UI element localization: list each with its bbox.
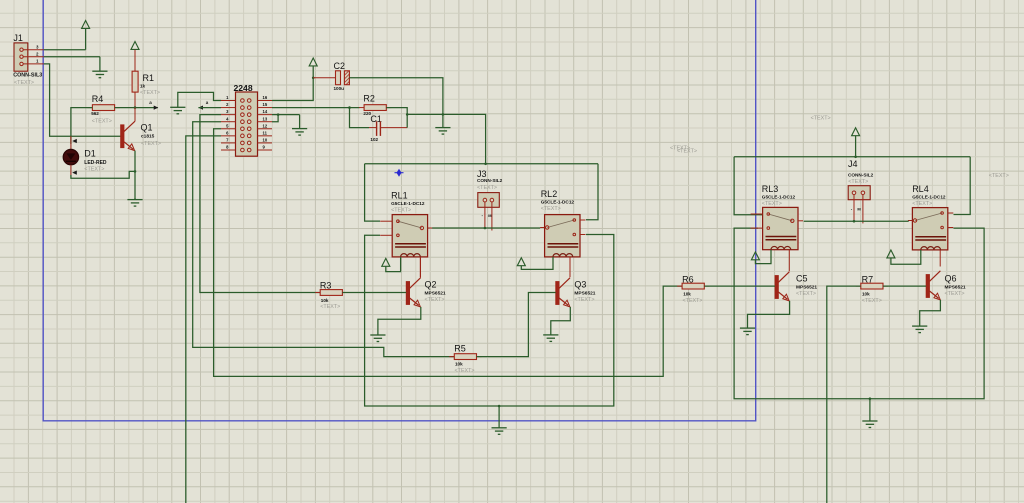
svg-text:<TEXT>: <TEXT> bbox=[912, 201, 932, 207]
wire RL1 common to RL2 common bbox=[432, 227, 540, 229]
power terminal P2 bbox=[131, 42, 139, 50]
ground G9 bbox=[740, 328, 755, 335]
svg-text:<TEXT>: <TEXT> bbox=[140, 90, 160, 96]
wire 2248 pin1 to ground bbox=[178, 92, 221, 107]
junction dot bbox=[484, 227, 487, 230]
svg-text:<TEXT>: <TEXT> bbox=[677, 149, 697, 155]
svg-text:<TEXT>: <TEXT> bbox=[848, 179, 868, 185]
svg-text:<TEXT>: <TEXT> bbox=[141, 141, 161, 147]
wire Q2 collector bbox=[420, 257, 422, 278]
wire RL3 coil left to power bbox=[755, 250, 771, 264]
power terminal P3 bbox=[309, 58, 317, 66]
transistor Q2 bbox=[406, 278, 446, 307]
svg-text:<TEXT>: <TEXT> bbox=[320, 304, 340, 310]
ground G3 bbox=[292, 128, 307, 135]
wire R5 to Q3 base bbox=[477, 293, 556, 357]
resistor R5 bbox=[449, 344, 481, 374]
svg-text:R4: R4 bbox=[92, 94, 104, 104]
svg-text:R5: R5 bbox=[454, 344, 466, 354]
svg-text:10k: 10k bbox=[321, 298, 329, 303]
svg-text:<TEXT>: <TEXT> bbox=[945, 291, 965, 297]
wire R7 feed from bottom bbox=[827, 286, 861, 503]
svg-text:<TEXT>: <TEXT> bbox=[796, 291, 816, 297]
wire frame right to RL2 upper bbox=[586, 164, 598, 220]
wire to relay frame top bbox=[407, 114, 485, 163]
resistor R6 bbox=[677, 275, 709, 304]
svg-text:<TEXT>: <TEXT> bbox=[683, 298, 703, 304]
wire C5 emitter to ground bbox=[748, 301, 790, 328]
relay RL3 bbox=[751, 184, 803, 250]
svg-text:16: 16 bbox=[263, 95, 268, 100]
wire frame left upper to RL1 bbox=[365, 164, 380, 221]
junction dot bbox=[854, 156, 857, 159]
wire R2-C1 left loop bbox=[350, 108, 377, 128]
ground G1 bbox=[92, 57, 107, 78]
svg-text:G5CLE-1-DC12: G5CLE-1-DC12 bbox=[541, 199, 575, 204]
resistor R2 bbox=[359, 94, 391, 116]
terminal arrow A4 bbox=[72, 171, 77, 175]
capacitor C2 bbox=[334, 61, 350, 91]
wire Q2 emitter to ground bbox=[378, 307, 421, 335]
relay RL1 bbox=[380, 190, 432, 257]
transistor Q6 bbox=[926, 271, 966, 300]
wire R2-C1 right loop bbox=[380, 108, 407, 128]
wire R4 right junction bbox=[115, 107, 135, 109]
wire RL1 coil right to Q2 collector bbox=[419, 257, 421, 277]
svg-text:<TEXT>: <TEXT> bbox=[811, 116, 831, 122]
wire R6 to C5 base bbox=[704, 285, 775, 287]
wire Q1 emitter to ground bbox=[134, 151, 136, 200]
svg-text:G5CLE-1-DC12: G5CLE-1-DC12 bbox=[912, 195, 946, 200]
svg-text:RL1: RL1 bbox=[391, 190, 408, 200]
svg-text:100u: 100u bbox=[334, 86, 345, 91]
wire J1 pin2 to ground bbox=[44, 56, 100, 58]
relay RL2 bbox=[540, 189, 585, 257]
wire frame left lower / bottom bbox=[365, 235, 614, 407]
wire frame top edge bbox=[365, 163, 598, 165]
ground G5 bbox=[127, 198, 142, 206]
svg-text:J4: J4 bbox=[848, 159, 858, 169]
svg-text:2248: 2248 bbox=[234, 83, 253, 93]
svg-text:<TEXT>: <TEXT> bbox=[989, 173, 1009, 179]
svg-text:14: 14 bbox=[263, 109, 268, 114]
connector J4 bbox=[848, 159, 874, 223]
svg-text:R3: R3 bbox=[320, 280, 332, 290]
wire R7 to Q6 base bbox=[883, 285, 926, 287]
wire pin3 to R3 bbox=[200, 115, 320, 293]
wire RL3 common to RL4 common bbox=[804, 220, 909, 222]
wire pin5 to R6 bbox=[214, 129, 682, 377]
svg-text:<TEXT>: <TEXT> bbox=[574, 297, 594, 303]
wire C2 right to ground bbox=[349, 78, 443, 128]
svg-text:15: 15 bbox=[263, 102, 268, 107]
wire Q3 emitter to ground bbox=[551, 307, 571, 335]
transistor Q1 bbox=[121, 108, 161, 151]
svg-text:<TEXT>: <TEXT> bbox=[84, 166, 104, 172]
svg-text:CONN-SIL2: CONN-SIL2 bbox=[477, 178, 503, 183]
svg-text:RL3: RL3 bbox=[762, 184, 779, 194]
svg-text:RL4: RL4 bbox=[912, 184, 929, 194]
connector J1 bbox=[13, 33, 44, 86]
svg-text:10: 10 bbox=[263, 138, 268, 143]
junction dot bbox=[406, 113, 409, 116]
wire right frame left lower / bottom bbox=[734, 228, 984, 399]
terminal arrow A1 bbox=[149, 100, 158, 110]
junction dot bbox=[442, 113, 445, 116]
svg-text:CONN-SIL2: CONN-SIL2 bbox=[848, 172, 874, 177]
wire right frame to RL4 upper bbox=[954, 157, 971, 215]
wire RL2 coil left to power bbox=[521, 257, 553, 270]
junction dot bbox=[134, 106, 137, 109]
wire RL2 coil right to Q3 collector bbox=[569, 257, 571, 277]
svg-text:G5CLE-1-DC12: G5CLE-1-DC12 bbox=[762, 195, 796, 200]
wire J1 pin1 to Q1 base bbox=[44, 64, 121, 136]
svg-text:Q2: Q2 bbox=[425, 279, 437, 289]
resistor R1 bbox=[132, 50, 160, 108]
wire pin16 to power bbox=[272, 66, 313, 100]
svg-text:J1: J1 bbox=[13, 33, 23, 43]
junction dot bbox=[348, 106, 351, 109]
svg-text:<TEXT>: <TEXT> bbox=[762, 201, 782, 207]
terminal arrow A2 bbox=[198, 100, 208, 110]
origin marker bbox=[395, 169, 404, 177]
resistor R3 bbox=[315, 280, 347, 310]
transistor C5 bbox=[775, 272, 817, 301]
wire RL4 coil left to power bbox=[891, 250, 921, 264]
svg-text:C5: C5 bbox=[796, 273, 808, 283]
wire terminal to pin2 bbox=[198, 107, 221, 109]
svg-text:562: 562 bbox=[91, 111, 99, 116]
wire RL4 coil right to Q6 collector bbox=[939, 250, 941, 267]
blue selection box bbox=[43, 0, 756, 421]
svg-text:MPS6521: MPS6521 bbox=[796, 284, 817, 290]
svg-text:102: 102 bbox=[370, 137, 378, 142]
wire RL1 coil left to power bbox=[386, 257, 401, 272]
terminal arrow A3 bbox=[72, 139, 77, 143]
ground G4 bbox=[435, 128, 450, 135]
wire J1 pin3 to power bbox=[44, 49, 86, 51]
svg-text:R2: R2 bbox=[363, 94, 375, 104]
svg-text:<TEXT>: <TEXT> bbox=[541, 206, 561, 212]
svg-text:MPS6521: MPS6521 bbox=[945, 284, 966, 290]
diode D1 LED-RED bbox=[63, 136, 107, 172]
svg-text:RL2: RL2 bbox=[541, 189, 558, 199]
power terminal P6 bbox=[751, 252, 759, 260]
svg-text:c1815: c1815 bbox=[141, 134, 155, 140]
svg-text:10k: 10k bbox=[862, 292, 870, 297]
svg-text:<TEXT>: <TEXT> bbox=[92, 119, 112, 125]
ground G7 bbox=[543, 335, 558, 342]
resistor R4 bbox=[87, 94, 119, 125]
svg-text:G5CLE-1-DC12: G5CLE-1-DC12 bbox=[391, 201, 425, 206]
stray text label 3 bbox=[989, 173, 1009, 179]
svg-text:12: 12 bbox=[263, 123, 268, 128]
svg-text:10k: 10k bbox=[455, 362, 463, 367]
stray text label 2 bbox=[811, 116, 831, 122]
ground G11 bbox=[862, 399, 877, 428]
wire pin4 to R5 bbox=[193, 122, 455, 357]
svg-text:Q3: Q3 bbox=[574, 279, 586, 289]
svg-text:MPS6521: MPS6521 bbox=[574, 290, 595, 296]
wire C2 left bbox=[313, 77, 335, 79]
power terminal P7 bbox=[887, 250, 895, 258]
wire pins13-14 to ground bbox=[272, 115, 300, 129]
svg-text:13: 13 bbox=[263, 116, 268, 121]
svg-text:<TEXT>: <TEXT> bbox=[862, 298, 882, 304]
wire R4 left to D1 bbox=[71, 108, 93, 144]
svg-text:<TEXT>: <TEXT> bbox=[425, 297, 445, 303]
wire D1 cathode to Q1 emitter bbox=[71, 165, 135, 179]
svg-text:LED-RED: LED-RED bbox=[84, 160, 107, 166]
junction dot bbox=[853, 220, 856, 223]
wire right frame left upper to RL3 bbox=[734, 157, 763, 215]
junction dot bbox=[134, 170, 137, 173]
svg-text:Q1: Q1 bbox=[141, 123, 153, 133]
svg-text:1k: 1k bbox=[140, 84, 146, 89]
ground G8 bbox=[492, 406, 507, 434]
wire Q6 emitter to ground bbox=[920, 300, 941, 326]
wire to terminal A1 bbox=[135, 107, 158, 109]
IC 2248 connector bbox=[221, 83, 272, 156]
junction dot bbox=[312, 77, 315, 80]
capacitor C1 bbox=[370, 114, 382, 142]
svg-text:CONN-SIL3: CONN-SIL3 bbox=[13, 73, 42, 79]
power terminal P5 bbox=[517, 258, 525, 266]
transistor Q3 bbox=[556, 278, 596, 307]
stray text label 1 bbox=[670, 145, 697, 154]
power terminal P1 bbox=[82, 21, 90, 50]
svg-text:<TEXT>: <TEXT> bbox=[14, 80, 34, 86]
wire RL3 coil right to C5 collector bbox=[788, 250, 790, 272]
junction dot bbox=[869, 397, 872, 400]
svg-text:<TEXT>: <TEXT> bbox=[455, 368, 475, 374]
power terminal P4 bbox=[382, 258, 390, 266]
wire pin6 down bbox=[186, 136, 221, 503]
connector J3 bbox=[477, 169, 503, 231]
wire pin15 to R2 bbox=[272, 107, 360, 109]
svg-text:<TEXT>: <TEXT> bbox=[477, 185, 497, 191]
svg-text:MPS6521: MPS6521 bbox=[425, 290, 446, 296]
svg-text:Q6: Q6 bbox=[945, 273, 957, 283]
svg-text:R1: R1 bbox=[143, 73, 155, 83]
junction dot bbox=[484, 163, 487, 166]
wire R3 to Q2 base bbox=[342, 292, 406, 294]
svg-text:<TEXT>: <TEXT> bbox=[391, 207, 411, 213]
resistor R7 bbox=[856, 275, 888, 304]
wire right frame top edge bbox=[734, 156, 970, 158]
svg-text:C2: C2 bbox=[334, 61, 346, 71]
ground G6 bbox=[370, 335, 385, 342]
svg-text:D1: D1 bbox=[84, 148, 96, 158]
svg-text:10k: 10k bbox=[683, 292, 691, 297]
ground G10 bbox=[912, 326, 927, 333]
relay RL4 bbox=[908, 184, 953, 250]
power terminal P8 bbox=[852, 128, 860, 157]
junction dot bbox=[277, 113, 280, 116]
ground G2 bbox=[170, 107, 185, 114]
svg-text:11: 11 bbox=[263, 130, 268, 135]
junction dot bbox=[498, 405, 501, 408]
